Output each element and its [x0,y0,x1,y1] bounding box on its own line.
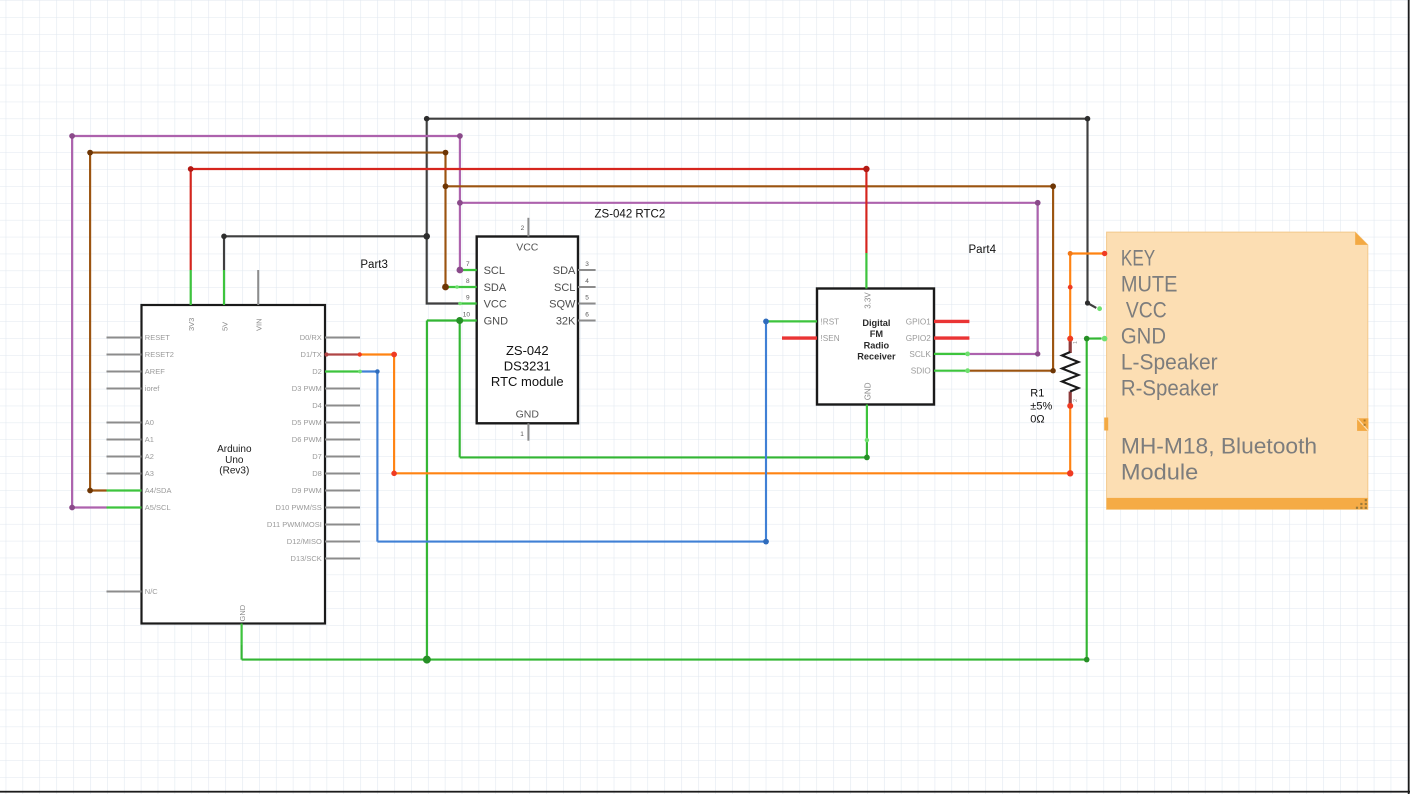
node blue FM RST corner [763,319,769,325]
wire D1/TX red segment [325,353,360,355]
RTC pin 3 stub [578,269,596,271]
svg-text:ZS-042 RTC2: ZS-042 RTC2 [595,208,666,220]
Arduino 5V leg [223,270,225,305]
wire brown top [90,152,445,154]
svg-text:5V: 5V [221,322,230,331]
RTC pin 4 stub [578,286,596,288]
wire purple to SCLK pin [969,353,1037,355]
RTC pin 6 stub [578,320,596,322]
Arduino pin ioref stub [107,388,142,390]
node orange corner D1 [391,352,397,358]
svg-text:A2: A2 [145,452,154,461]
Arduino pin D13/SCK stub [325,558,360,560]
svg-text:GPIO2: GPIO2 [906,334,931,343]
svg-text:N/C: N/C [145,587,159,596]
FM pin GPIO2 stub [934,336,969,339]
node purple corner NE [1035,200,1041,206]
wire 3V3 up [190,169,192,270]
node purple top left [69,133,75,139]
svg-text:D7: D7 [312,452,322,461]
Arduino pin D11 PWM/MOSI stub [325,524,360,526]
svg-text:6: 6 [585,312,589,319]
Arduino pin D10 PWM/SS stub [325,507,360,509]
Arduino pin D9 PWM stub [325,490,360,492]
svg-text:AREF: AREF [145,367,165,376]
note text pin names [1121,246,1219,401]
node purple A5 corner [69,505,75,511]
svg-text:SQW: SQW [549,298,576,310]
svg-text:4: 4 [585,278,589,285]
Arduino pin D8 stub [325,473,360,475]
Digital FM Radio Receiver Part4 body [817,289,934,405]
svg-text:A3: A3 [145,469,154,478]
Arduino title [217,444,252,476]
svg-text:ZS-042: ZS-042 [506,343,549,358]
node brown corner [443,150,449,156]
resistor R1 value label [1030,388,1052,426]
Arduino pin RESET stub [107,337,142,339]
svg-text:VCC: VCC [516,242,539,254]
wire orange D1 to bend [360,353,394,355]
wire GND to RTC pin [427,319,460,321]
note left tab [1104,418,1108,431]
wire GND branch right [460,456,867,458]
svg-text:1: 1 [520,431,524,438]
svg-text:GPIO1: GPIO1 [906,317,931,326]
node gray end [1085,300,1090,305]
svg-text:10: 10 [463,312,471,319]
svg-text:ioref: ioref [145,384,161,393]
svg-text:SCL: SCL [554,282,575,294]
FM SDIO leg [934,370,969,372]
svg-text:VCC: VCC [1126,298,1167,323]
svg-text:FM: FM [870,329,884,339]
wire brown branch right [446,185,1054,187]
wire top gray bus [427,118,1088,120]
node 5V corner [221,234,227,240]
node SDIO leg end [965,368,970,373]
node RTC SCL pin [457,267,464,274]
svg-text:A1: A1 [145,435,154,444]
Arduino pin A2 stub [107,456,142,458]
node orange corner KEY [1068,251,1073,256]
resistor R1 leads [1069,339,1072,406]
Arduino pin A0 stub [107,422,142,424]
wire purple down to RTC SCL [459,136,461,270]
svg-text:Digital: Digital [862,318,890,328]
ZS-042 RTC2 body [477,237,578,424]
FM 3.3V leg [865,253,867,289]
node note KEY end [1102,251,1107,256]
svg-text:1: 1 [1073,341,1079,344]
RTC SCL leg [460,269,477,271]
svg-text:SDA: SDA [484,282,507,294]
svg-text:D5 PWM: D5 PWM [292,418,322,427]
svg-text:SCL: SCL [484,265,505,277]
Arduino pin VIN stub [257,270,259,305]
Arduino pin A1 stub [107,439,142,441]
svg-text:L-Speaker: L-Speaker [1121,350,1218,375]
wire orange down [393,355,395,474]
wire GND bus up at RTC [426,321,428,660]
node SCLK leg end [965,352,970,357]
wire A5/SCL left [72,506,106,508]
svg-text:±5%: ±5% [1030,401,1052,413]
svg-text:D13/SCK: D13/SCK [291,554,322,563]
node brown T [443,183,449,189]
wire GND from Arduino [241,645,243,660]
svg-text:Arduino: Arduino [217,444,252,455]
wire blue right [377,541,766,543]
wire junction down to RTC VCC [427,236,460,303]
svg-text:3.3V: 3.3V [863,292,872,309]
svg-text:D11 PWM/MOSI: D11 PWM/MOSI [267,520,322,529]
wire GND branch down [459,321,461,458]
wire orange R1 top up [1069,254,1071,339]
RTC pin 2 VCC top stub [527,218,529,237]
Arduino pin D12/MISO stub [325,541,360,543]
svg-text:32K: 32K [556,315,576,327]
node RTC GND pin [456,317,463,324]
wire brown to SDIO pin [969,370,1053,372]
node brown top left [87,150,93,156]
svg-text:MH-M18, Bluetooth: MH-M18, Bluetooth [1121,434,1317,459]
RTC pin 5 stub [578,303,596,305]
RTC pin numbers [463,225,590,438]
FM pin SEN stub [782,336,817,339]
node GND junction bus [423,656,431,664]
wire 5V to junction [224,235,427,237]
node gray junction [423,233,430,240]
wire junction up [426,119,428,237]
svg-text:GND: GND [516,408,540,420]
Arduino A5/SCL leg [107,506,142,508]
svg-text:Module: Module [1121,460,1198,485]
node brown corner SE [1050,368,1055,373]
svg-text:Radio: Radio [864,340,890,350]
RTC GND leg [460,319,477,321]
svg-text:2: 2 [521,225,525,232]
wire blue up to FM RST [765,321,767,541]
node red 3V3 corner [188,166,194,172]
wire blue from D2 [360,370,377,372]
node brown A4 corner [87,488,93,494]
node GND corner right [1084,657,1090,663]
canvas border right [1408,0,1410,794]
note bottom bar [1107,498,1368,509]
wire orange to note KEY [1070,252,1104,254]
node brown corner NE [1050,183,1056,189]
node RTC VCC leg dot [458,302,462,306]
FM pin GPIO1 stub [934,320,969,323]
node RTC SDA pin [442,284,449,291]
Arduino pin D0/RX stub [325,337,360,339]
svg-text:GND: GND [863,382,872,400]
svg-text:GND: GND [238,604,247,621]
Arduino pin N/C stub [107,591,142,593]
wire GND to note [1087,337,1102,339]
node orange corner D8 [391,471,397,477]
svg-text:D3 PWM: D3 PWM [292,384,322,393]
svg-text:DS3231: DS3231 [504,359,551,374]
svg-text:3V3: 3V3 [187,318,196,331]
svg-text:A4/SDA: A4/SDA [145,486,172,495]
wire purple branch right [460,202,1038,204]
node R1 pin1 [1067,336,1073,342]
svg-text:D8: D8 [312,469,322,478]
note resize grip [1356,499,1367,509]
wire brown down to RTC SDA [444,153,446,287]
svg-text:5: 5 [585,295,589,302]
node note GND end [1102,336,1108,342]
wire orange right to R1 [394,472,1070,474]
svg-text:SCLK: SCLK [909,350,931,359]
svg-text:Part3: Part3 [360,259,388,271]
Arduino GND leg [241,624,243,646]
Arduino pin D7 stub [325,456,360,458]
node purple T [457,200,463,206]
svg-text:A5/SCL: A5/SCL [145,503,171,512]
svg-text:VIN: VIN [255,318,264,331]
Arduino pin A3 stub [107,473,142,475]
svg-text:RESET2: RESET2 [145,350,174,359]
svg-text:Receiver: Receiver [857,352,896,362]
node D1/TX pin end [324,352,328,356]
node gray top left [424,116,430,122]
wire orange up to R1 bottom [1069,406,1071,473]
svg-text:RESET: RESET [145,333,170,342]
svg-text:D10 PWM/SS: D10 PWM/SS [276,503,322,512]
svg-text:3: 3 [585,261,589,268]
svg-text:!SEN: !SEN [821,334,840,343]
Arduino pin D6 PWM stub [325,439,360,441]
Arduino 3V3 leg [190,270,192,305]
svg-text:GND: GND [1121,324,1166,349]
Arduino D2 leg [325,370,360,372]
FM title [857,318,896,362]
node purple corner SE [1035,351,1040,356]
wire brown down to FM SDIO [1052,186,1054,370]
svg-text:RTC module: RTC module [491,374,564,389]
wire brown up [89,153,91,491]
wire purple down to FM SCLK [1037,203,1039,354]
note MH-M18 Bluetooth Module [1104,232,1368,509]
Arduino pin D5 PWM stub [325,422,360,424]
FM GND leg [866,405,868,441]
node blue corner D2 [375,369,380,374]
svg-text:SDA: SDA [553,265,576,277]
svg-text:(Rev3): (Rev3) [219,465,249,476]
Arduino Uno Part3 body [142,305,326,624]
node blue corner SW [763,539,769,545]
wire blue down [376,372,378,542]
svg-text:D4: D4 [312,401,322,410]
resistor R1 zigzag [1062,352,1079,392]
node FM GND leg end [865,438,869,442]
node GND note corner [1084,336,1090,342]
node red FM corner [863,166,869,172]
note folded corner [1355,232,1368,245]
node R1 pin2 [1067,403,1073,409]
svg-text:MUTE: MUTE [1121,272,1178,297]
svg-text:VCC: VCC [484,298,507,310]
svg-text:!RST: !RST [821,317,840,326]
wire gray right down [1086,119,1088,303]
svg-text:2: 2 [1073,399,1079,402]
Arduino pin D3 PWM stub [325,388,360,390]
svg-text:9: 9 [466,295,470,302]
FM SCLK leg [934,353,969,355]
RTC SDA leg [446,286,477,288]
svg-text:8: 8 [466,278,470,285]
svg-text:Part4: Part4 [969,244,997,256]
RTC title [491,343,564,389]
node GND FM corner [864,455,870,461]
svg-text:D6 PWM: D6 PWM [292,435,322,444]
node RTC SDA leg dot [455,285,459,289]
Arduino A4/SDA leg [107,489,142,491]
wire red top [191,168,867,170]
wire purple up [71,136,73,508]
svg-text:D12/MISO: D12/MISO [287,537,322,546]
svg-text:R-Speaker: R-Speaker [1121,376,1219,401]
wire A4/SDA left [90,489,106,491]
wire gray diagonal to note VCC [1088,303,1097,308]
FM RST leg [766,320,817,322]
svg-text:0Ω: 0Ω [1030,414,1044,426]
canvas border bottom [0,791,1410,793]
node D2 leg end [358,370,362,374]
Arduino pin RESET2 stub [107,354,142,356]
note right tab [1357,418,1368,431]
svg-text:R1: R1 [1030,388,1044,400]
Arduino pin D4 stub [325,405,360,407]
svg-text:Uno: Uno [225,455,244,466]
RTC VCC leg [460,302,477,304]
wire purple top [72,135,460,137]
wire GND up to FM [866,440,868,457]
svg-text:SDIO: SDIO [911,367,931,376]
wire GND bus up right [1086,339,1088,660]
svg-text:D0/RX: D0/RX [300,333,322,342]
RTC pin 1 GND bottom stub [527,423,529,440]
svg-text:KEY: KEY [1121,246,1155,271]
svg-text:GND: GND [484,315,509,327]
Arduino pin AREF stub [107,371,142,373]
node orange R1 junction [1067,470,1073,476]
svg-text:A0: A0 [145,418,154,427]
node D1 red-orange bend [358,352,362,356]
svg-text:D2: D2 [312,367,322,376]
node note VCC end [1097,306,1102,311]
svg-text:D9 PWM: D9 PWM [292,486,322,495]
wire GND bus bottom [242,659,1087,661]
svg-text:7: 7 [466,261,470,268]
node orange bend [1068,285,1073,290]
svg-text:D1/TX: D1/TX [301,350,322,359]
note text module name [1121,434,1317,485]
node gray top right [1085,116,1091,122]
wire 5V up [223,236,225,270]
wire red down to FM 3.3V [865,169,867,253]
node purple top right [457,133,463,139]
